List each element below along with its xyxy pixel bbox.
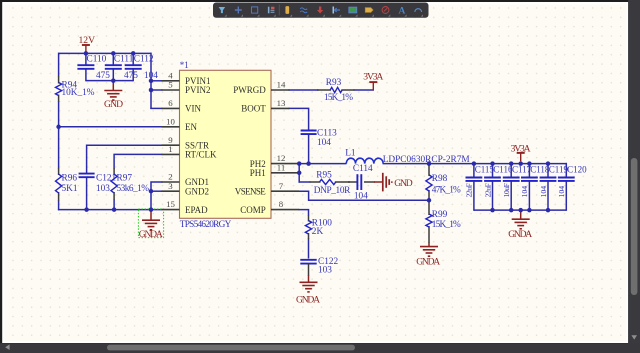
svg-text:C110: C110 (87, 55, 107, 65)
resistor R94 body (56, 83, 62, 96)
svg-text:R95: R95 (316, 171, 332, 181)
capacitor C113 plates (301, 130, 317, 132)
toolbar icon down arrow (317, 6, 323, 13)
bottom scrollbar track (0, 343, 640, 353)
junction dot 1 (84, 51, 89, 56)
ground GNDA epad symbol (142, 219, 160, 221)
toolbar icon no-erc (382, 7, 389, 14)
capacitor C118 plates (521, 177, 538, 179)
svg-text:EN: EN (185, 122, 197, 132)
wire left rail middle (58, 102, 60, 169)
junction dot 20 (518, 161, 523, 166)
resistor R98 body (426, 175, 432, 191)
toolbar icon align (333, 6, 340, 13)
svg-text:11: 11 (277, 162, 285, 172)
toolbar dropdown mark 1 (225, 14, 227, 16)
resistor R93 leads (317, 89, 331, 91)
toolbar icon net label (365, 8, 373, 13)
svg-text:22uF: 22uF (483, 182, 492, 197)
ground GND input stub (112, 81, 114, 91)
wire C113 bottom (308, 134, 310, 164)
svg-text:103: 103 (318, 265, 332, 275)
pin 3 GND2 stub (162, 190, 180, 192)
wire PWRGD to R93 (289, 89, 319, 91)
svg-text:5: 5 (168, 80, 173, 90)
svg-text:GND: GND (394, 178, 413, 189)
wire C110 top stub (85, 53, 87, 65)
svg-text:RT/CLK: RT/CLK (185, 150, 217, 160)
svg-text:TPS54620RGY: TPS54620RGY (180, 220, 232, 230)
svg-text:3: 3 (168, 181, 173, 191)
capacitor C110 plates (77, 64, 94, 66)
toolbar dropdown mark 4 (274, 14, 276, 16)
wire VSENSE route (299, 191, 430, 200)
toolbar icon filter (219, 7, 226, 13)
svg-text:GNDA: GNDA (508, 229, 532, 240)
pin 4 PVIN1 stub (162, 80, 180, 82)
wire SW node (383, 163, 567, 165)
svg-text:10K_1%: 10K_1% (62, 88, 95, 98)
svg-text:C112: C112 (134, 55, 154, 65)
pin 5 PVIN2 stub (162, 89, 180, 91)
svg-text:3V3A: 3V3A (363, 71, 383, 82)
svg-text:47K_1%: 47K_1% (432, 185, 461, 195)
ground GND c114 lead (364, 181, 375, 183)
right scrollbar thumb (631, 158, 638, 295)
junction dot 11 (149, 189, 154, 194)
capacitor C114 leads (348, 181, 357, 183)
toolbar dropdown mark 11 (388, 14, 390, 16)
toolbar dropdown mark 5 (290, 14, 292, 16)
wire C111 top stub (112, 53, 114, 65)
svg-text:104: 104 (520, 186, 529, 198)
wire C115 top stub (473, 163, 475, 178)
resistor R93 body (330, 87, 342, 92)
resistor R97 leads (113, 168, 115, 175)
toolbar dropdown mark 13 (421, 14, 423, 16)
pin 7 VSENSE stub (271, 190, 299, 192)
ground GNDA feedback symbol (420, 246, 438, 248)
wire C1110 bottom stub (565, 181, 567, 211)
svg-text:C114: C114 (353, 164, 373, 174)
junction dot 3 (131, 51, 136, 56)
svg-text:C119: C119 (549, 164, 569, 174)
capacitor C116 plates (484, 177, 501, 179)
wire C112 bottom stub (132, 69, 134, 82)
wire GND2 link (151, 190, 163, 192)
junction dot 19 (509, 161, 514, 166)
capacitor C119 plates (540, 177, 557, 179)
wire EN net (59, 126, 163, 128)
junction dot 6 (149, 88, 154, 93)
resistor R95 body (320, 179, 336, 184)
wire R100 to C122 (308, 239, 310, 259)
wire C119 bottom stub (547, 181, 549, 211)
pin 10 EN stub (162, 126, 180, 128)
svg-text:104: 104 (539, 186, 548, 198)
pin 15 EPAD stub (162, 209, 180, 211)
junction dot 7 (56, 125, 61, 130)
svg-text:DNP_10R: DNP_10R (314, 186, 351, 196)
wire C119 top stub (547, 163, 549, 178)
junction dot 4 (111, 78, 116, 83)
svg-text:GNDA: GNDA (416, 257, 440, 268)
svg-text:15K_1%: 15K_1% (432, 220, 461, 230)
wire C118 bottom stub (528, 181, 530, 211)
toolbar dropdown mark 9 (355, 14, 357, 16)
inductor L1 body (346, 158, 383, 163)
toolbar icon cross probe (235, 6, 242, 13)
power port 12V bar (82, 44, 90, 46)
ground GNDA comp symbol (300, 281, 318, 283)
toolbar icon pad (285, 6, 289, 14)
pin 14 PWRGD stub (271, 89, 290, 91)
svg-text:3V3A: 3V3A (511, 143, 531, 154)
toolbar dropdown mark 7 (323, 14, 325, 16)
wire PH1 to R95 (299, 181, 311, 183)
junction dot 22 (546, 161, 551, 166)
svg-text:R97: R97 (117, 174, 133, 184)
resistor R98 leads (428, 164, 430, 176)
svg-text:LDPC0630RCP-2R7M: LDPC0630RCP-2R7M (383, 155, 470, 165)
svg-text:13: 13 (277, 98, 286, 108)
junction dot 12 (297, 161, 302, 166)
svg-text:PVIN2: PVIN2 (185, 85, 211, 95)
ground GNDA fb stub (428, 243, 430, 247)
resistor R96 body (56, 174, 62, 193)
wire left rail lower (58, 200, 60, 210)
capacitor C122 bottom lead (308, 264, 310, 276)
junction dot 15 (427, 161, 432, 166)
junction dot 25 (518, 208, 523, 213)
resistor R99 leads (428, 200, 430, 215)
floating toolbar (213, 3, 429, 18)
wire C116 bottom stub (492, 181, 494, 211)
toolbar dropdown mark 12 (404, 14, 406, 16)
svg-text:22uF: 22uF (465, 182, 474, 197)
capacitor C115 plates (466, 177, 483, 179)
svg-text:C111: C111 (114, 55, 134, 65)
wire C118 top stub (528, 163, 530, 178)
capacitor C122 plates (300, 259, 316, 261)
wire 12V bus (59, 52, 151, 54)
toolbar icon room (349, 7, 357, 13)
resistor R100 leads (308, 215, 310, 222)
capacitor C121 plates (79, 173, 95, 175)
svg-text:C120: C120 (567, 164, 587, 174)
junction dot 21 (527, 161, 532, 166)
ground GND input symbol (104, 90, 122, 92)
resistor R96 leads (58, 168, 60, 175)
capacitor C111 plates (105, 64, 122, 66)
svg-text:2K: 2K (312, 227, 324, 237)
svg-text:BOOT: BOOT (241, 104, 266, 114)
svg-text:475: 475 (124, 71, 138, 81)
junction dot 14 (297, 171, 302, 176)
right scrollbar track (628, 0, 640, 353)
svg-text:PWRGD: PWRGD (233, 85, 266, 95)
capacitor C120 plates (558, 177, 575, 179)
svg-text:R98: R98 (432, 174, 448, 184)
svg-text:R93: R93 (326, 78, 342, 88)
svg-text:7: 7 (279, 181, 284, 191)
pin 13 BOOT stub (271, 107, 290, 109)
toolbar dropdown mark 6 (306, 14, 308, 16)
junction dot 18 (490, 161, 495, 166)
toolbar dropdown mark 10 (372, 14, 374, 16)
junction dot 24 (509, 208, 514, 213)
svg-text:C113: C113 (317, 128, 337, 138)
resistor R100 body (305, 221, 311, 235)
wire BOOT to C113 (289, 108, 309, 130)
pin 8 COMP stub (271, 209, 299, 211)
wire left rail upper (58, 53, 60, 77)
svg-text:GND2: GND2 (185, 186, 209, 196)
wire RT/CLK net (114, 154, 162, 168)
toolbar dropdown mark 3 (257, 14, 259, 16)
svg-text:475: 475 (96, 71, 110, 81)
junction dot 13 (306, 161, 311, 166)
junction dot 16 (427, 198, 432, 203)
svg-text:R99: R99 (432, 210, 448, 220)
pin 1 RT/CLK stub (162, 153, 180, 155)
svg-text:VIN: VIN (185, 104, 201, 114)
junction dot 2 (111, 51, 116, 56)
wire GND1-GND2 tie (151, 182, 163, 210)
pin 12 PH2 stub (271, 163, 299, 165)
power port 3V3A pwrgd bar (369, 81, 377, 83)
wire PH2 to L1 (299, 163, 347, 165)
pin 11 PH1 stub (271, 172, 299, 174)
svg-text:R96: R96 (62, 174, 78, 184)
capacitor C114 plates (356, 174, 358, 190)
bottom scrollbar left arrow (5, 344, 9, 350)
svg-text:14: 14 (277, 80, 286, 90)
svg-text:8: 8 (279, 199, 284, 209)
svg-text:10: 10 (166, 116, 175, 126)
toolbar icon text (399, 6, 406, 16)
wire VIN link (150, 107, 162, 109)
toolbar icon probe (268, 7, 275, 14)
right scrollbar down arrow (631, 335, 637, 339)
svg-text:10uF: 10uF (502, 182, 511, 197)
junction dot 9 (112, 207, 117, 212)
svg-text:15K_1%: 15K_1% (324, 93, 353, 103)
capacitor C112 plates (125, 64, 142, 66)
pin 2 GND1 stub (162, 181, 180, 183)
resistor R95 leads (310, 181, 321, 183)
toolbar icon waves (300, 8, 307, 13)
wire R93 to 3V3A (354, 89, 375, 91)
ground GNDA output symbol (512, 218, 530, 220)
wire SS/TR net (87, 145, 163, 173)
bottom scrollbar thumb (107, 345, 355, 351)
toolbar separator (278, 5, 280, 16)
op-amp U1 TPS54620RGY body (180, 70, 272, 218)
svg-text:15: 15 (166, 199, 175, 209)
pin 6 VIN stub (162, 107, 180, 109)
wire C1110 top stub (565, 163, 567, 178)
junction dot 10 (149, 207, 154, 212)
svg-text:COMP: COMP (240, 205, 266, 215)
svg-text:EPAD: EPAD (185, 205, 208, 215)
wire PH1 tie rail (298, 163, 300, 183)
svg-text:C118: C118 (530, 164, 550, 174)
svg-text:104: 104 (317, 138, 331, 148)
toolbar dropdown mark 2 (241, 14, 243, 16)
ground GNDA epad stub (150, 210, 152, 221)
wire C117 bottom stub (510, 181, 512, 211)
capacitor C117 plates (503, 177, 520, 179)
resistor R99 body (426, 214, 432, 227)
svg-text:12V: 12V (79, 35, 96, 46)
junction dot 5 (149, 79, 154, 84)
svg-text:C115: C115 (475, 164, 495, 174)
svg-text:103: 103 (96, 184, 110, 194)
resistor R94 leads (58, 76, 60, 84)
junction dot 26 (527, 208, 532, 213)
ground GNDA comp stub (308, 275, 310, 282)
svg-text:53k6_1%: 53k6_1% (117, 184, 150, 194)
junction dot 8 (84, 207, 89, 212)
svg-text:1: 1 (168, 144, 172, 154)
ground GND c114 symbol (382, 173, 384, 192)
svg-text:L1: L1 (345, 148, 356, 158)
wire output ground bus (474, 209, 566, 211)
svg-text:A: A (399, 6, 406, 16)
wire C111 bottom stub (112, 69, 114, 82)
wire C115 bottom stub (473, 181, 475, 211)
wire COMP route (299, 210, 309, 216)
toolbar icon region (251, 7, 257, 13)
wire R97 bottom (113, 200, 115, 211)
svg-text:C116: C116 (493, 164, 513, 174)
svg-text:104: 104 (354, 192, 368, 202)
wire C117 top stub (510, 163, 512, 178)
svg-text:PH1: PH1 (250, 168, 266, 178)
toolbar icon arc (415, 9, 422, 12)
junction dot 27 (546, 208, 551, 213)
junction dot 23 (490, 208, 495, 213)
wire C110 bottom stub (85, 69, 87, 82)
power port 3V3A output bar (517, 152, 525, 154)
svg-text:6: 6 (168, 98, 173, 108)
wire pin4 link (151, 80, 163, 82)
wire C121 bottom (86, 177, 88, 210)
wire C112 top stub (132, 53, 134, 65)
wire analog ground bus (58, 209, 163, 211)
svg-text:VSENSE: VSENSE (235, 186, 267, 196)
junction dot 17 (472, 161, 477, 166)
svg-text:C117: C117 (512, 164, 532, 174)
toolbar dropdown mark 8 (339, 14, 341, 16)
svg-text:104: 104 (557, 186, 566, 198)
svg-text:GNDA: GNDA (139, 229, 163, 240)
ground GNDA output stub (520, 210, 522, 219)
pin 9 SS/TR stub (162, 144, 180, 146)
svg-text:GND: GND (104, 99, 123, 110)
wire C116 top stub (492, 163, 494, 178)
svg-text:5K1: 5K1 (62, 184, 78, 194)
wire pin5 link (151, 89, 163, 91)
selection box around GNDA (138, 209, 163, 238)
resistor R97 body (111, 174, 117, 193)
svg-text:GNDA: GNDA (296, 295, 320, 306)
wire input caps ground bus (86, 80, 133, 82)
wire PVIN rail (150, 53, 152, 109)
svg-text:*1: *1 (180, 60, 189, 70)
